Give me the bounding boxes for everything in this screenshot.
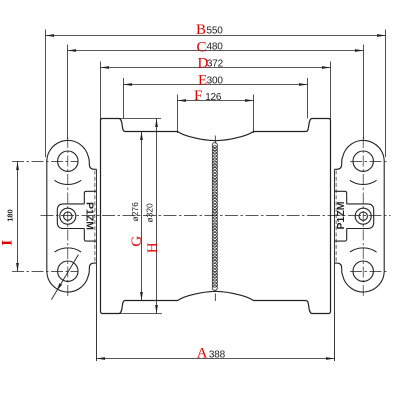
right top hole centerline	[350, 161, 387, 163]
bracket holes vertical centerline	[67, 137, 69, 296]
svg-text:P1ZM: P1ZM	[84, 202, 96, 230]
right bracket (mirror)	[335, 137, 385, 361]
svg-text:G: G	[129, 236, 145, 247]
left bracket bottom hole	[58, 261, 78, 281]
dimension F 126 line	[178, 100, 254, 102]
left bracket lower step	[84, 229, 96, 242]
D left ext	[100, 62, 102, 120]
svg-text:I: I	[0, 240, 15, 246]
dimension H ø320 line	[156, 119, 158, 314]
hidden mounting face line	[94, 171, 96, 262]
roller axis centerline	[41, 215, 391, 217]
left bottom hole centerline (180 extension)	[12, 271, 78, 273]
svg-text:480: 480	[207, 41, 224, 52]
left top hole centerline (180 extension)	[12, 161, 78, 163]
left bracket top hole	[58, 151, 78, 171]
dimension A 388 line	[97, 358, 335, 360]
dimension 180 line	[17, 162, 19, 272]
left bracket top lobe	[47, 140, 97, 169]
H bottom extension stub	[120, 313, 163, 315]
left bracket outer edge	[46, 161, 48, 271]
roller outline	[101, 119, 331, 314]
dimension E 300 line	[124, 84, 308, 86]
svg-text:H: H	[145, 242, 161, 253]
dimension G ø276 line	[141, 132, 143, 301]
svg-text:126: 126	[205, 92, 222, 103]
dimension C 480 line	[68, 50, 364, 52]
left bracket small hole outer	[60, 208, 76, 224]
F left ext	[177, 95, 179, 134]
F right ext	[253, 95, 255, 134]
svg-text:P1ZM: P1ZM	[335, 201, 347, 229]
H top extension stub	[120, 118, 162, 120]
C left ext	[67, 45, 69, 140]
B right ext	[385, 30, 387, 158]
weld seam coil	[212, 143, 217, 148]
E left ext	[123, 78, 125, 118]
C right ext	[363, 45, 365, 140]
left bracket small hole inner	[64, 212, 72, 220]
E right ext	[307, 78, 309, 118]
right bottom hole centerline	[350, 271, 387, 273]
svg-text:ø320: ø320	[144, 203, 154, 223]
svg-text:ø276: ø276	[130, 202, 140, 222]
B left ext	[45, 30, 47, 158]
left bracket bottom lobe	[47, 263, 97, 292]
svg-text:372: 372	[207, 58, 224, 69]
svg-text:550: 550	[207, 26, 224, 37]
leader line bottom-left hole	[51, 255, 78, 300]
svg-text:C: C	[197, 39, 207, 55]
svg-text:180: 180	[6, 209, 15, 222]
bottom hole spot-face arc	[54, 248, 81, 252]
svg-text:388: 388	[209, 349, 226, 360]
dimension B 550 line	[46, 35, 386, 37]
D right ext	[330, 62, 332, 120]
left bracket outline	[47, 137, 97, 361]
svg-text:F: F	[194, 88, 202, 104]
weld seam center stubs	[214, 136, 216, 144]
top hole spot-face arc	[54, 180, 81, 184]
left bracket upper step	[84, 191, 96, 204]
dimension D 372 line	[101, 67, 331, 69]
left bracket inner edge / A extension	[96, 169, 98, 361]
left bracket middle tab	[57, 204, 84, 229]
svg-text:300: 300	[207, 75, 224, 86]
svg-text:A: A	[197, 346, 208, 362]
svg-text:B: B	[196, 22, 206, 38]
